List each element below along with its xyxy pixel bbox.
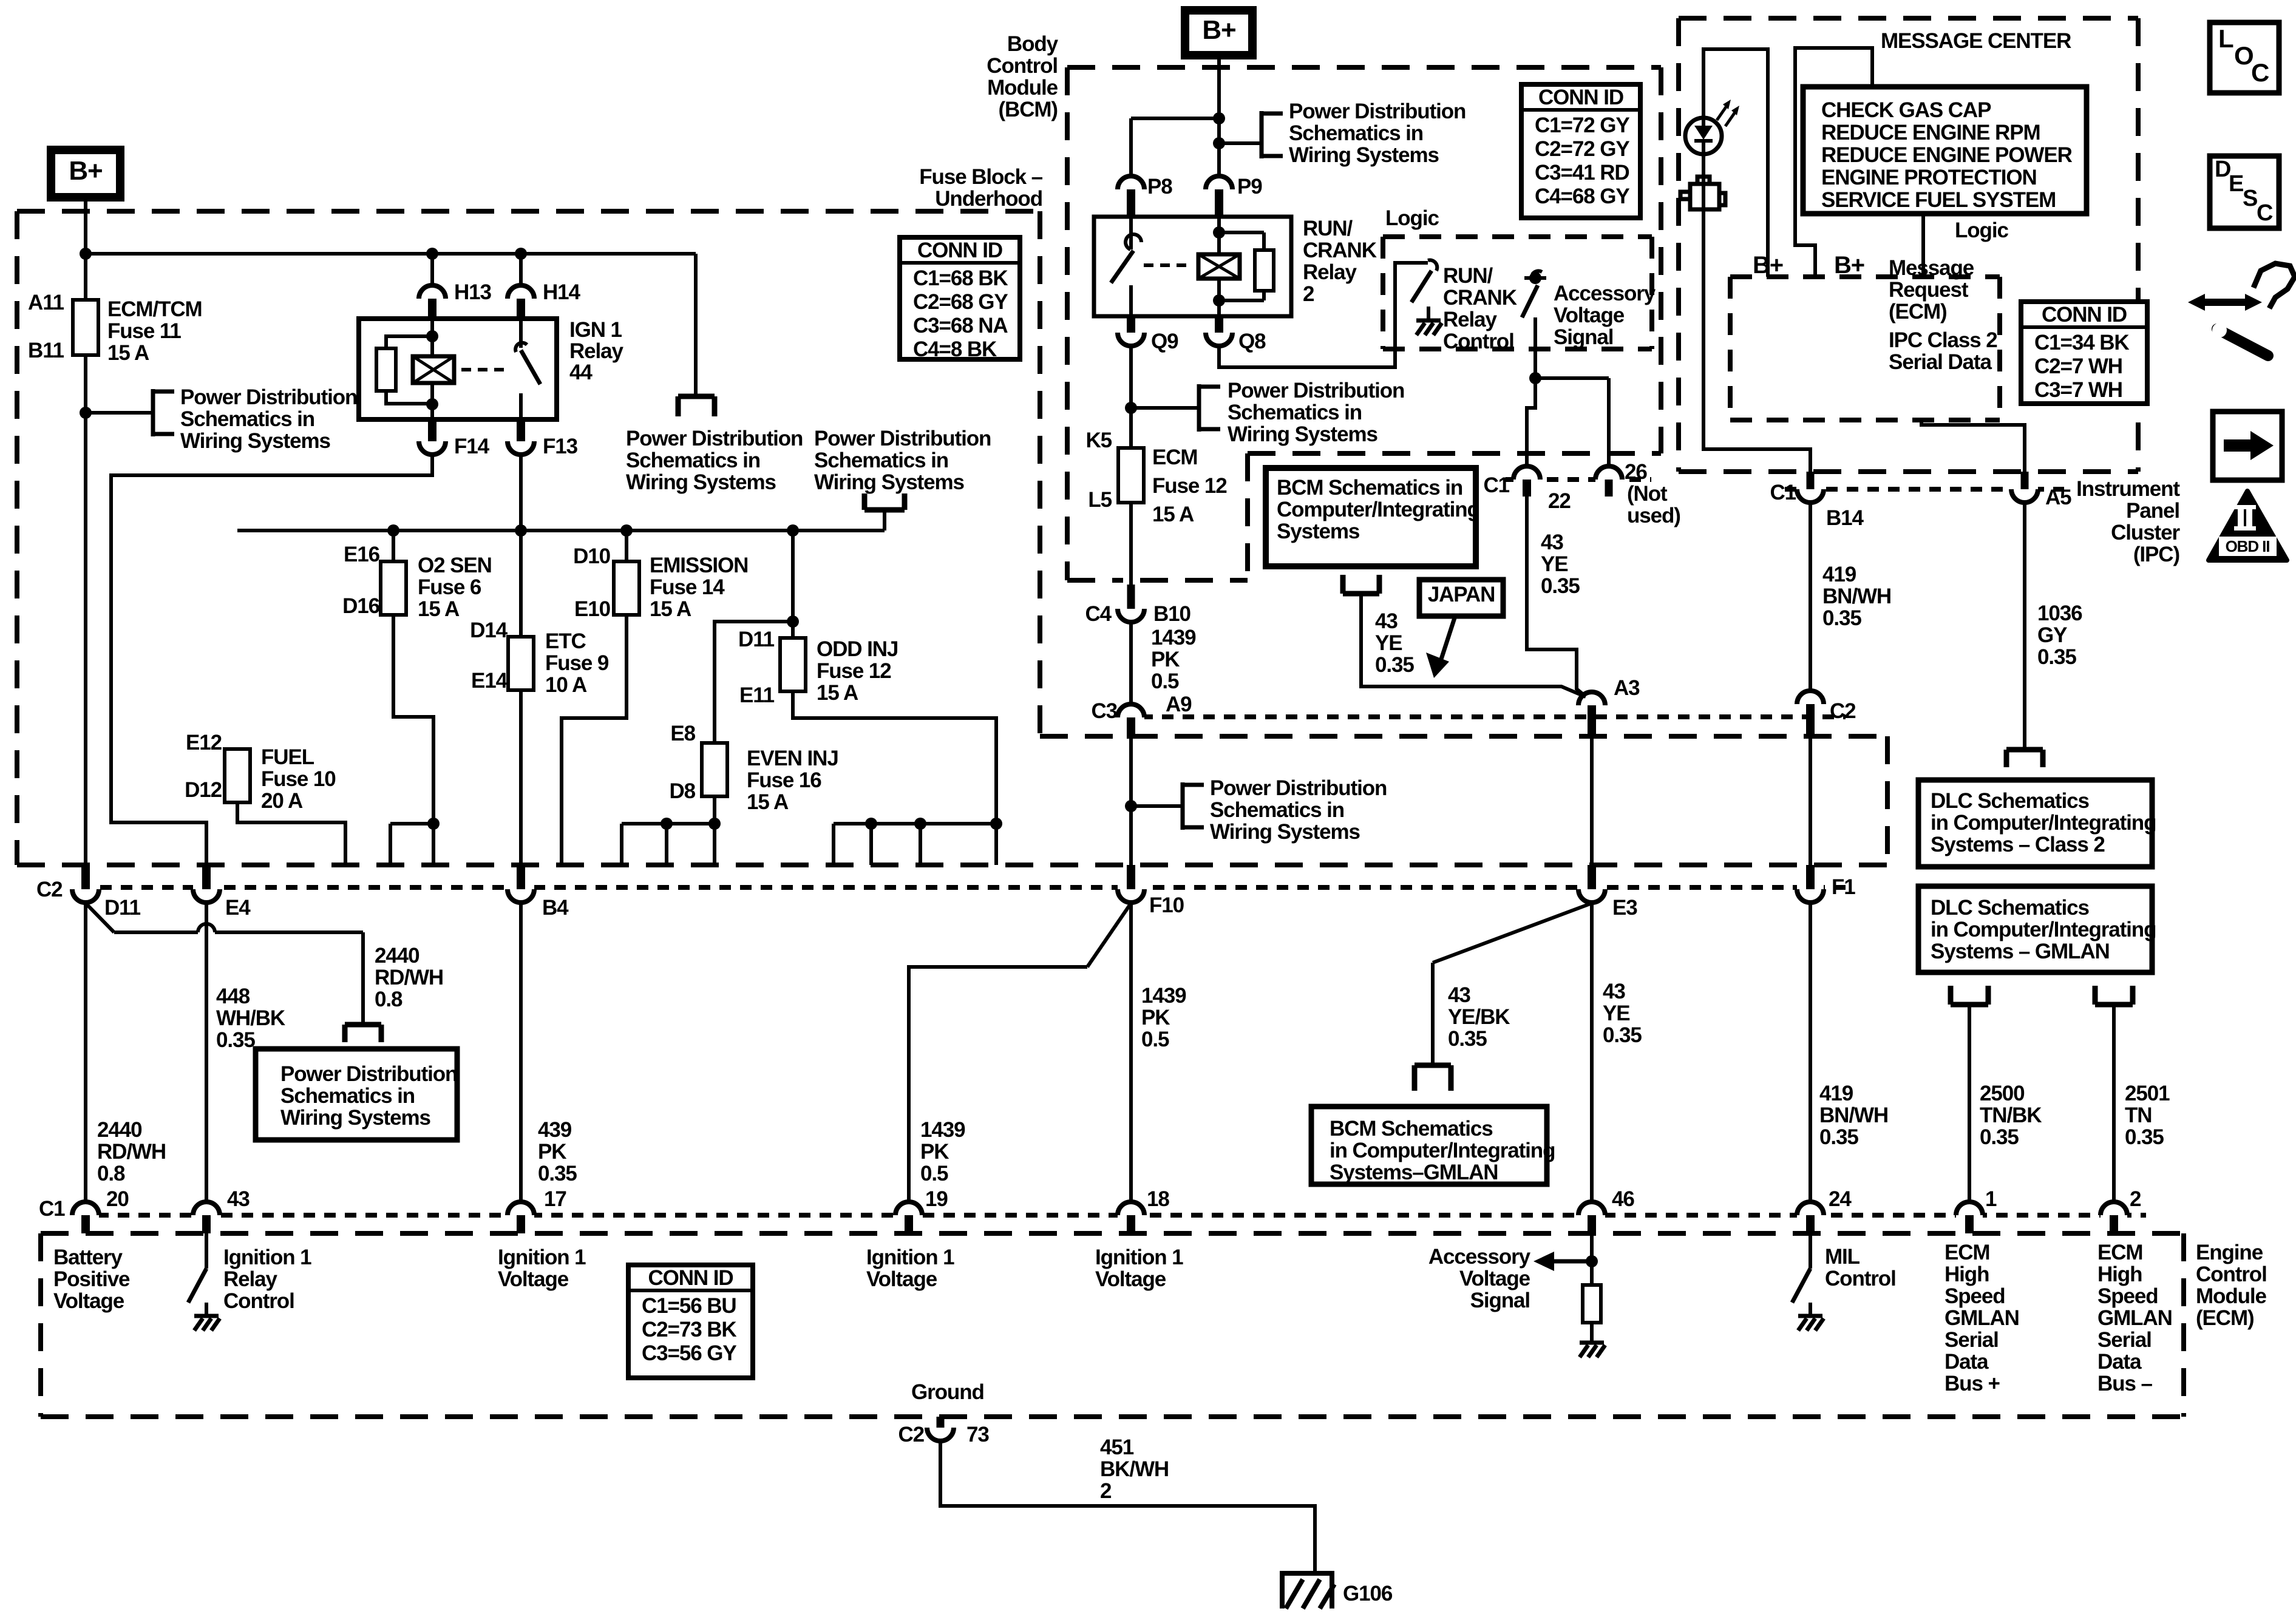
label D10 bbox=[573, 544, 611, 568]
label ETC Fuse 9 10 A bbox=[545, 629, 609, 697]
svg-text:448: 448 bbox=[216, 985, 250, 1008]
svg-text:Engine: Engine bbox=[2196, 1241, 2263, 1264]
svg-text:Signal: Signal bbox=[1554, 325, 1613, 349]
ground symbol ignition relay control bbox=[194, 1316, 220, 1331]
legend OBD II triangle bbox=[2209, 491, 2287, 560]
label H14 bbox=[543, 280, 581, 304]
relay IGN1 dashed actuator link bbox=[461, 368, 504, 371]
label B10 bbox=[1153, 602, 1191, 626]
svg-text:Power Distribution: Power Distribution bbox=[1210, 776, 1387, 800]
wire 46 to accessory node bbox=[1590, 1233, 1594, 1285]
label ECM High Speed GMLAN bus plus bbox=[1944, 1241, 2019, 1395]
svg-text:15 A: 15 A bbox=[817, 681, 858, 705]
svg-text:Logic: Logic bbox=[1385, 206, 1439, 230]
label 2440 RD/WH 0.8 (lower) bbox=[97, 1118, 166, 1185]
svg-text:E14: E14 bbox=[471, 669, 508, 693]
svg-text:Power Distribution: Power Distribution bbox=[626, 427, 803, 450]
label C1 (B14) bbox=[1770, 481, 1796, 504]
label 43 YE 0.35 (46) bbox=[1603, 980, 1642, 1047]
wire B+ to bus and fuse 11 bbox=[84, 197, 87, 300]
connector Q9 bbox=[1118, 316, 1144, 346]
label Instrument Panel Cluster IPC bbox=[2076, 477, 2180, 566]
label 19 bbox=[925, 1187, 948, 1211]
svg-text:RD/WH: RD/WH bbox=[375, 966, 443, 989]
svg-text:E: E bbox=[2229, 171, 2243, 197]
svg-text:ECM: ECM bbox=[2097, 1241, 2142, 1264]
switch accessory voltage signal bbox=[1522, 271, 1546, 467]
connector 26 (not used) bbox=[1595, 466, 1622, 497]
junction node accessory to 26 bbox=[1529, 372, 1541, 384]
svg-text:1: 1 bbox=[1985, 1187, 1997, 1211]
label D16 bbox=[342, 594, 380, 618]
wire ODD INJ output bbox=[793, 691, 996, 865]
svg-text:Speed: Speed bbox=[2097, 1284, 2158, 1308]
resistor accessory pulldown bbox=[1583, 1285, 1601, 1323]
LED lightning arrows bbox=[1717, 100, 1739, 126]
svg-text:Systems: Systems bbox=[1277, 520, 1360, 543]
svg-text:C3=68 NA: C3=68 NA bbox=[913, 314, 1008, 337]
svg-text:Request: Request bbox=[1889, 278, 1969, 302]
label B11 bbox=[28, 339, 64, 362]
svg-text:D11: D11 bbox=[738, 628, 775, 651]
svg-text:Message: Message bbox=[1889, 256, 1974, 280]
page reference bracket 1 bbox=[153, 389, 174, 436]
svg-text:H14: H14 bbox=[543, 280, 581, 304]
svg-text:26: 26 bbox=[1625, 460, 1647, 484]
svg-text:Schematics in: Schematics in bbox=[626, 449, 760, 472]
svg-text:C1=34 BK: C1=34 BK bbox=[2034, 331, 2129, 354]
svg-text:REDUCE ENGINE POWER: REDUCE ENGINE POWER bbox=[1821, 143, 2073, 167]
label Ignition 1 Relay Control bbox=[223, 1246, 311, 1313]
svg-text:GY: GY bbox=[2037, 623, 2067, 647]
svg-text:20 A: 20 A bbox=[261, 789, 303, 813]
svg-text:Power Distribution: Power Distribution bbox=[1228, 379, 1404, 402]
svg-text:Fuse Block –: Fuse Block – bbox=[919, 165, 1042, 189]
legend wrench icon bbox=[2188, 263, 2295, 356]
wire F10 diagonal to connector 19 bbox=[909, 903, 1131, 1202]
svg-text:Control: Control bbox=[1825, 1267, 1896, 1290]
svg-text:0.35: 0.35 bbox=[1822, 606, 1861, 630]
svg-text:C3=7 WH: C3=7 WH bbox=[2034, 378, 2122, 402]
label A3 bbox=[1614, 676, 1640, 700]
label power distribution schematics (bus end) bbox=[626, 427, 803, 494]
svg-text:Schematics in: Schematics in bbox=[1210, 798, 1344, 822]
label RUN/CRANK Relay Control bbox=[1443, 264, 1517, 353]
label Logic (IPC) bbox=[1955, 219, 2008, 242]
junction node Q9 reference branch bbox=[1125, 402, 1137, 414]
connector B4 bbox=[508, 865, 534, 903]
JAPAN label box bbox=[1419, 580, 1503, 616]
wire E3 to connector 46 (43 YE) bbox=[1590, 903, 1594, 1202]
page reference bracket above GMLAN box bbox=[1415, 1065, 1451, 1091]
svg-text:19: 19 bbox=[925, 1187, 948, 1211]
svg-text:15 A: 15 A bbox=[418, 597, 460, 621]
svg-text:Voltage: Voltage bbox=[1095, 1267, 1166, 1291]
svg-text:Serial: Serial bbox=[2097, 1328, 2152, 1352]
label G106 bbox=[1343, 1582, 1393, 1605]
wire to reference bracket 4 bbox=[1131, 406, 1199, 410]
svg-text:CONN ID: CONN ID bbox=[917, 239, 1002, 262]
junction node bus-H13 bbox=[426, 248, 438, 260]
svg-text:0.35: 0.35 bbox=[1541, 574, 1580, 598]
IPC logic dashed box (message request) bbox=[1730, 277, 2000, 420]
connector D11 (C2 rail) bbox=[72, 865, 99, 903]
accessory arrow bbox=[1533, 1252, 1592, 1271]
message center display box bbox=[1803, 87, 2087, 214]
label power distribution schematics (feed) bbox=[814, 427, 991, 494]
connector B14 bbox=[1797, 472, 1824, 503]
svg-text:High: High bbox=[1944, 1263, 1989, 1286]
wire hop over E4 wire bbox=[198, 924, 363, 1025]
svg-text:15 A: 15 A bbox=[107, 341, 149, 365]
svg-text:C2=7 WH: C2=7 WH bbox=[2034, 354, 2122, 378]
svg-text:K5: K5 bbox=[1085, 429, 1112, 452]
svg-text:2: 2 bbox=[1100, 1479, 1112, 1503]
relay RUN/CRANK switch bbox=[1111, 217, 1141, 316]
connector 2 (C1 rail) bbox=[2101, 1202, 2127, 1233]
wire bus to H13 bbox=[430, 254, 434, 285]
box DLC schematics GMLAN bbox=[1918, 886, 2156, 972]
CONN ID box BCM bbox=[1521, 84, 1640, 218]
wire to reference bracket 3 bbox=[1219, 141, 1262, 145]
svg-text:18: 18 bbox=[1147, 1187, 1169, 1211]
label IPC Class 2 Serial Data bbox=[1889, 328, 1997, 374]
connector F13 bbox=[508, 419, 534, 455]
wire BCM box to A3 junction bbox=[1361, 594, 1586, 697]
page reference bracket 4 bbox=[1199, 384, 1220, 432]
label P9 bbox=[1237, 175, 1262, 198]
svg-text:Relay: Relay bbox=[223, 1267, 278, 1291]
svg-text:Ground: Ground bbox=[911, 1380, 984, 1404]
ground symbol relay control bbox=[1416, 307, 1442, 335]
svg-text:1439: 1439 bbox=[920, 1118, 965, 1142]
svg-text:Power Distribution: Power Distribution bbox=[280, 1062, 457, 1086]
svg-text:in Computer/Integrating: in Computer/Integrating bbox=[1330, 1139, 1555, 1162]
svg-text:B+: B+ bbox=[1753, 252, 1783, 279]
bottom dotted connector rail C1 bbox=[97, 1213, 2146, 1218]
ground symbol accessory bbox=[1580, 1343, 1605, 1357]
svg-text:24: 24 bbox=[1829, 1187, 1852, 1211]
svg-text:0.8: 0.8 bbox=[375, 988, 402, 1011]
svg-text:Wiring Systems: Wiring Systems bbox=[1228, 422, 1377, 446]
label Engine Control Module ECM bbox=[2196, 1241, 2267, 1330]
fuse EVEN INJ Fuse 16 (E8-D8) bbox=[702, 743, 727, 796]
svg-text:43: 43 bbox=[227, 1187, 250, 1211]
battery B+ symbol box (center) bbox=[1185, 10, 1252, 55]
svg-text:Cluster: Cluster bbox=[2111, 521, 2180, 544]
svg-text:15 A: 15 A bbox=[747, 790, 789, 814]
wire message box B+ feed bbox=[1795, 48, 1872, 277]
label 2501 TN 0.35 bbox=[2125, 1082, 2170, 1149]
svg-text:A3: A3 bbox=[1614, 676, 1640, 700]
svg-text:Schematics in: Schematics in bbox=[280, 1084, 415, 1108]
svg-text:PK: PK bbox=[920, 1140, 949, 1164]
wire C2 to F1 bbox=[1809, 739, 1812, 865]
label EMISSION Fuse 14 15 A bbox=[650, 554, 748, 621]
svg-text:RUN/: RUN/ bbox=[1303, 217, 1353, 240]
svg-text:439: 439 bbox=[538, 1118, 572, 1142]
svg-text:CONN ID: CONN ID bbox=[648, 1266, 733, 1290]
wire B14 to C2 (419 BN/WH) bbox=[1809, 503, 1812, 691]
svg-text:Data: Data bbox=[1944, 1350, 1989, 1374]
label 43 YE 0.35 (22) bbox=[1541, 531, 1580, 598]
svg-text:C2=72 GY: C2=72 GY bbox=[1535, 137, 1629, 161]
svg-text:C1=72 GY: C1=72 GY bbox=[1535, 114, 1629, 137]
svg-text:Power Distribution: Power Distribution bbox=[1289, 100, 1466, 123]
svg-text:C4=68 GY: C4=68 GY bbox=[1535, 185, 1629, 208]
svg-text:Ignition 1: Ignition 1 bbox=[866, 1246, 954, 1269]
svg-text:E16: E16 bbox=[344, 543, 380, 566]
svg-text:(IPC): (IPC) bbox=[2133, 543, 2179, 566]
wire feed to fuse row line bbox=[883, 510, 886, 531]
svg-text:Schematics in: Schematics in bbox=[1228, 401, 1362, 424]
svg-text:Wiring Systems: Wiring Systems bbox=[814, 470, 964, 494]
svg-text:F13: F13 bbox=[543, 435, 578, 458]
label FUEL Fuse 10 20 A bbox=[261, 745, 336, 813]
svg-text:0.35: 0.35 bbox=[1980, 1125, 2019, 1149]
svg-text:C2: C2 bbox=[36, 878, 63, 901]
svg-text:YE: YE bbox=[1541, 552, 1568, 576]
main bus wire from B+ bbox=[86, 254, 696, 396]
svg-text:ENGINE PROTECTION: ENGINE PROTECTION bbox=[1821, 166, 2037, 189]
svg-text:Body: Body bbox=[1007, 32, 1059, 56]
relay IGN1 coil branch wires bbox=[426, 319, 438, 419]
svg-text:Schematics in: Schematics in bbox=[1289, 121, 1423, 145]
svg-text:Power Distribution: Power Distribution bbox=[814, 427, 991, 450]
svg-text:EVEN INJ: EVEN INJ bbox=[747, 747, 838, 770]
label Q9 bbox=[1151, 330, 1178, 353]
connector Q8 bbox=[1206, 316, 1232, 346]
label E14 bbox=[471, 669, 508, 693]
svg-text:Control: Control bbox=[987, 54, 1058, 78]
svg-text:PK: PK bbox=[1141, 1006, 1170, 1029]
svg-text:Power Distribution: Power Distribution bbox=[180, 385, 357, 409]
connector P8 bbox=[1118, 176, 1144, 217]
legend DESC box bbox=[2210, 156, 2279, 228]
label power distribution schematics 1 bbox=[180, 385, 357, 453]
label C2 rail bbox=[36, 878, 63, 901]
svg-text:(ECM): (ECM) bbox=[2196, 1306, 2254, 1330]
svg-text:RUN/: RUN/ bbox=[1443, 264, 1493, 288]
svg-text:Control: Control bbox=[2196, 1263, 2267, 1286]
label E16 bbox=[344, 543, 380, 566]
svg-text:43: 43 bbox=[1603, 980, 1625, 1003]
svg-text:JAPAN: JAPAN bbox=[1428, 583, 1495, 606]
connector 43 (C1 rail) bbox=[193, 1202, 220, 1233]
svg-text:E4: E4 bbox=[225, 896, 251, 920]
battery B+ symbol box (left) bbox=[51, 150, 120, 197]
svg-text:A11: A11 bbox=[28, 291, 64, 314]
label H13 bbox=[454, 280, 492, 304]
label power distribution schematics 4 bbox=[1228, 379, 1404, 446]
svg-text:0.35: 0.35 bbox=[216, 1028, 255, 1052]
svg-text:Serial: Serial bbox=[1944, 1328, 1999, 1352]
wire F1 to connector 24 (419 BN/WH) bbox=[1809, 903, 1812, 1202]
wire branch to P8 bbox=[1131, 118, 1219, 177]
svg-text:73: 73 bbox=[966, 1423, 989, 1446]
svg-text:Voltage: Voltage bbox=[53, 1289, 124, 1313]
label A9 bbox=[1166, 693, 1192, 716]
label 1439 PK 0.5 (upper) bbox=[1151, 626, 1196, 693]
svg-text:451: 451 bbox=[1100, 1436, 1134, 1459]
label 1439 PK 0.5 (branch 18) bbox=[1141, 984, 1186, 1051]
svg-text:A9: A9 bbox=[1166, 693, 1192, 716]
svg-text:P9: P9 bbox=[1237, 175, 1262, 198]
mid dotted connector rail (BCM bottom) bbox=[1141, 714, 1846, 719]
junction node bus-H14 bbox=[515, 248, 527, 260]
label F1 bbox=[1832, 875, 1855, 899]
fuse block underhood dashed outline (left box) bbox=[17, 211, 1040, 865]
BCM dashed box outline bbox=[1067, 67, 1661, 580]
svg-text:in Computer/Integrating: in Computer/Integrating bbox=[1931, 811, 2156, 835]
svg-text:Signal: Signal bbox=[1470, 1289, 1530, 1312]
junction node on bus at B+ riser bbox=[80, 248, 92, 260]
label A5 bbox=[2045, 486, 2071, 509]
junction node riser-reference branch bbox=[1213, 137, 1225, 149]
svg-text:S: S bbox=[2243, 186, 2257, 211]
label D12 bbox=[185, 778, 222, 802]
label B4 bbox=[542, 896, 569, 920]
connector 46 (C1 rail) bbox=[1578, 1202, 1605, 1233]
label L5 bbox=[1088, 488, 1112, 512]
label 43 YE/BK 0.35 bbox=[1448, 983, 1510, 1051]
svg-text:Fuse 14: Fuse 14 bbox=[650, 575, 725, 599]
svg-text:C1=68 BK: C1=68 BK bbox=[913, 266, 1008, 290]
label 419 BN/WH 0.35 (lower) bbox=[1819, 1082, 1888, 1149]
label F13 bbox=[543, 435, 578, 458]
label Logic (BCM) bbox=[1385, 206, 1439, 230]
page reference bracket DLC GMLAN left bbox=[1951, 986, 1988, 1005]
svg-text:L: L bbox=[2218, 24, 2233, 53]
svg-text:REDUCE ENGINE RPM: REDUCE ENGINE RPM bbox=[1821, 121, 2040, 144]
wire B+ riser bbox=[1217, 55, 1221, 177]
label E8 bbox=[670, 722, 695, 745]
wire D11 diagonal branch bbox=[86, 903, 198, 932]
svg-text:Q8: Q8 bbox=[1238, 330, 1266, 353]
svg-text:Ignition 1: Ignition 1 bbox=[1095, 1246, 1183, 1269]
label 73 bbox=[966, 1423, 989, 1446]
svg-text:D8: D8 bbox=[669, 779, 695, 803]
svg-text:Instrument: Instrument bbox=[2076, 477, 2180, 501]
svg-text:CHECK GAS CAP: CHECK GAS CAP bbox=[1821, 98, 1991, 122]
wire C3 to F10 bbox=[1129, 739, 1133, 865]
wire C4 to C3 (1439 PK) bbox=[1129, 622, 1133, 705]
label MESSAGE CENTER bbox=[1881, 29, 2071, 53]
ground G106 symbol bbox=[1280, 1573, 1334, 1609]
page reference bracket DLC class2 bbox=[2006, 750, 2043, 767]
svg-text:Voltage: Voltage bbox=[866, 1267, 937, 1291]
connector 24 (C1 rail) bbox=[1797, 1202, 1824, 1233]
label 439 PK 0.35 bbox=[538, 1118, 577, 1185]
svg-text:SERVICE FUEL SYSTEM: SERVICE FUEL SYSTEM bbox=[1821, 188, 2056, 212]
svg-text:Underhood: Underhood bbox=[935, 187, 1042, 211]
junction node ODD-EVEN branch bbox=[787, 615, 799, 628]
svg-text:Systems – Class 2: Systems – Class 2 bbox=[1931, 833, 2105, 856]
label B14 bbox=[1826, 506, 1864, 530]
label IGN 1 Relay 44 bbox=[569, 318, 624, 384]
label D11 fuse bbox=[738, 628, 775, 651]
box DLC schematics class 2 bbox=[1918, 780, 2156, 867]
svg-text:PK: PK bbox=[1151, 648, 1180, 671]
label C4 bbox=[1085, 602, 1112, 626]
svg-text:D12: D12 bbox=[185, 778, 222, 802]
fuse ETC Fuse 9 (D14-E14) bbox=[508, 637, 534, 690]
svg-text:2501: 2501 bbox=[2125, 1082, 2170, 1105]
fuse ODD INJ Fuse 12 (D11-E11) bbox=[780, 638, 806, 691]
svg-text:Speed: Speed bbox=[1944, 1284, 2005, 1308]
svg-text:22: 22 bbox=[1548, 489, 1571, 513]
label C1 (BCM) bbox=[1483, 473, 1509, 497]
page reference bracket 3 bbox=[1262, 111, 1283, 158]
label 1 bbox=[1985, 1187, 1997, 1211]
svg-text:Module: Module bbox=[2196, 1284, 2267, 1308]
label 1439 PK 0.5 (branch 19) bbox=[920, 1118, 965, 1185]
label Q8 bbox=[1238, 330, 1266, 353]
svg-text:TN: TN bbox=[2125, 1103, 2152, 1127]
legend arrow box bbox=[2213, 412, 2282, 480]
label 17 bbox=[544, 1187, 566, 1211]
junction nodes on 874 line bbox=[387, 524, 799, 537]
fuse ECM Fuse 12 (K5-L5) bbox=[1118, 448, 1144, 503]
svg-text:Module: Module bbox=[987, 76, 1058, 100]
svg-text:0.35: 0.35 bbox=[1819, 1125, 1858, 1149]
svg-text:ECM/TCM: ECM/TCM bbox=[107, 297, 202, 321]
svg-text:Positive: Positive bbox=[53, 1267, 130, 1291]
label Ignition 1 Voltage (17) bbox=[498, 1246, 586, 1291]
svg-text:Data: Data bbox=[2097, 1350, 2142, 1374]
svg-text:BN/WH: BN/WH bbox=[1819, 1103, 1888, 1127]
svg-text:ETC: ETC bbox=[545, 629, 586, 653]
label 448 WH/BK 0.35 bbox=[216, 985, 285, 1052]
label ODD INJ Fuse 12 15 A bbox=[817, 637, 898, 705]
label C2 (ground) bbox=[898, 1423, 924, 1446]
page reference bracket DLC GMLAN right bbox=[2095, 986, 2133, 1005]
wire F13 down to ETC fuse bbox=[519, 454, 523, 637]
svg-text:1439: 1439 bbox=[1151, 626, 1196, 649]
relay RUN/CRANK coil symbol bbox=[1198, 254, 1240, 279]
wire MIL B+ feed bbox=[1703, 49, 1768, 277]
svg-text:Schematics in: Schematics in bbox=[180, 407, 314, 431]
connector H13 bbox=[419, 285, 446, 319]
wire A5 to DLC bracket (1036 GY) bbox=[2023, 503, 2026, 750]
svg-text:Fuse 16: Fuse 16 bbox=[747, 768, 821, 792]
connector A3 bbox=[1578, 692, 1605, 739]
label F10 bbox=[1149, 893, 1184, 917]
ECM long-dash box outline bbox=[41, 1233, 2184, 1417]
comb bar B bbox=[834, 818, 996, 865]
svg-text:P8: P8 bbox=[1147, 175, 1172, 198]
page reference bracket to power distribution box bbox=[345, 1025, 381, 1042]
label D8 bbox=[669, 779, 695, 803]
svg-text:O2 SEN: O2 SEN bbox=[418, 554, 492, 577]
wire B4 to connector 17 (439 PK) bbox=[519, 903, 523, 1202]
wire 22 to A3 (43 YE) bbox=[1527, 497, 1588, 698]
IPC dashed box outline bbox=[1679, 18, 2138, 472]
svg-text:Wiring Systems: Wiring Systems bbox=[280, 1106, 430, 1130]
connector 17 (C1 rail) bbox=[508, 1202, 534, 1233]
svg-text:B14: B14 bbox=[1826, 506, 1864, 530]
label E10 bbox=[574, 597, 611, 621]
svg-text:CONN ID: CONN ID bbox=[2042, 303, 2127, 327]
svg-text:Voltage: Voltage bbox=[1554, 303, 1625, 327]
svg-text:Ignition 1: Ignition 1 bbox=[223, 1246, 311, 1269]
svg-text:Wiring Systems: Wiring Systems bbox=[180, 429, 330, 453]
IPC dotted connector rail bbox=[1785, 487, 2064, 492]
svg-text:F14: F14 bbox=[454, 435, 490, 458]
svg-text:0.5: 0.5 bbox=[1151, 670, 1179, 693]
wire Q8 to logic box bbox=[1219, 263, 1428, 367]
svg-text:in Computer/Integrating: in Computer/Integrating bbox=[1931, 918, 2156, 941]
